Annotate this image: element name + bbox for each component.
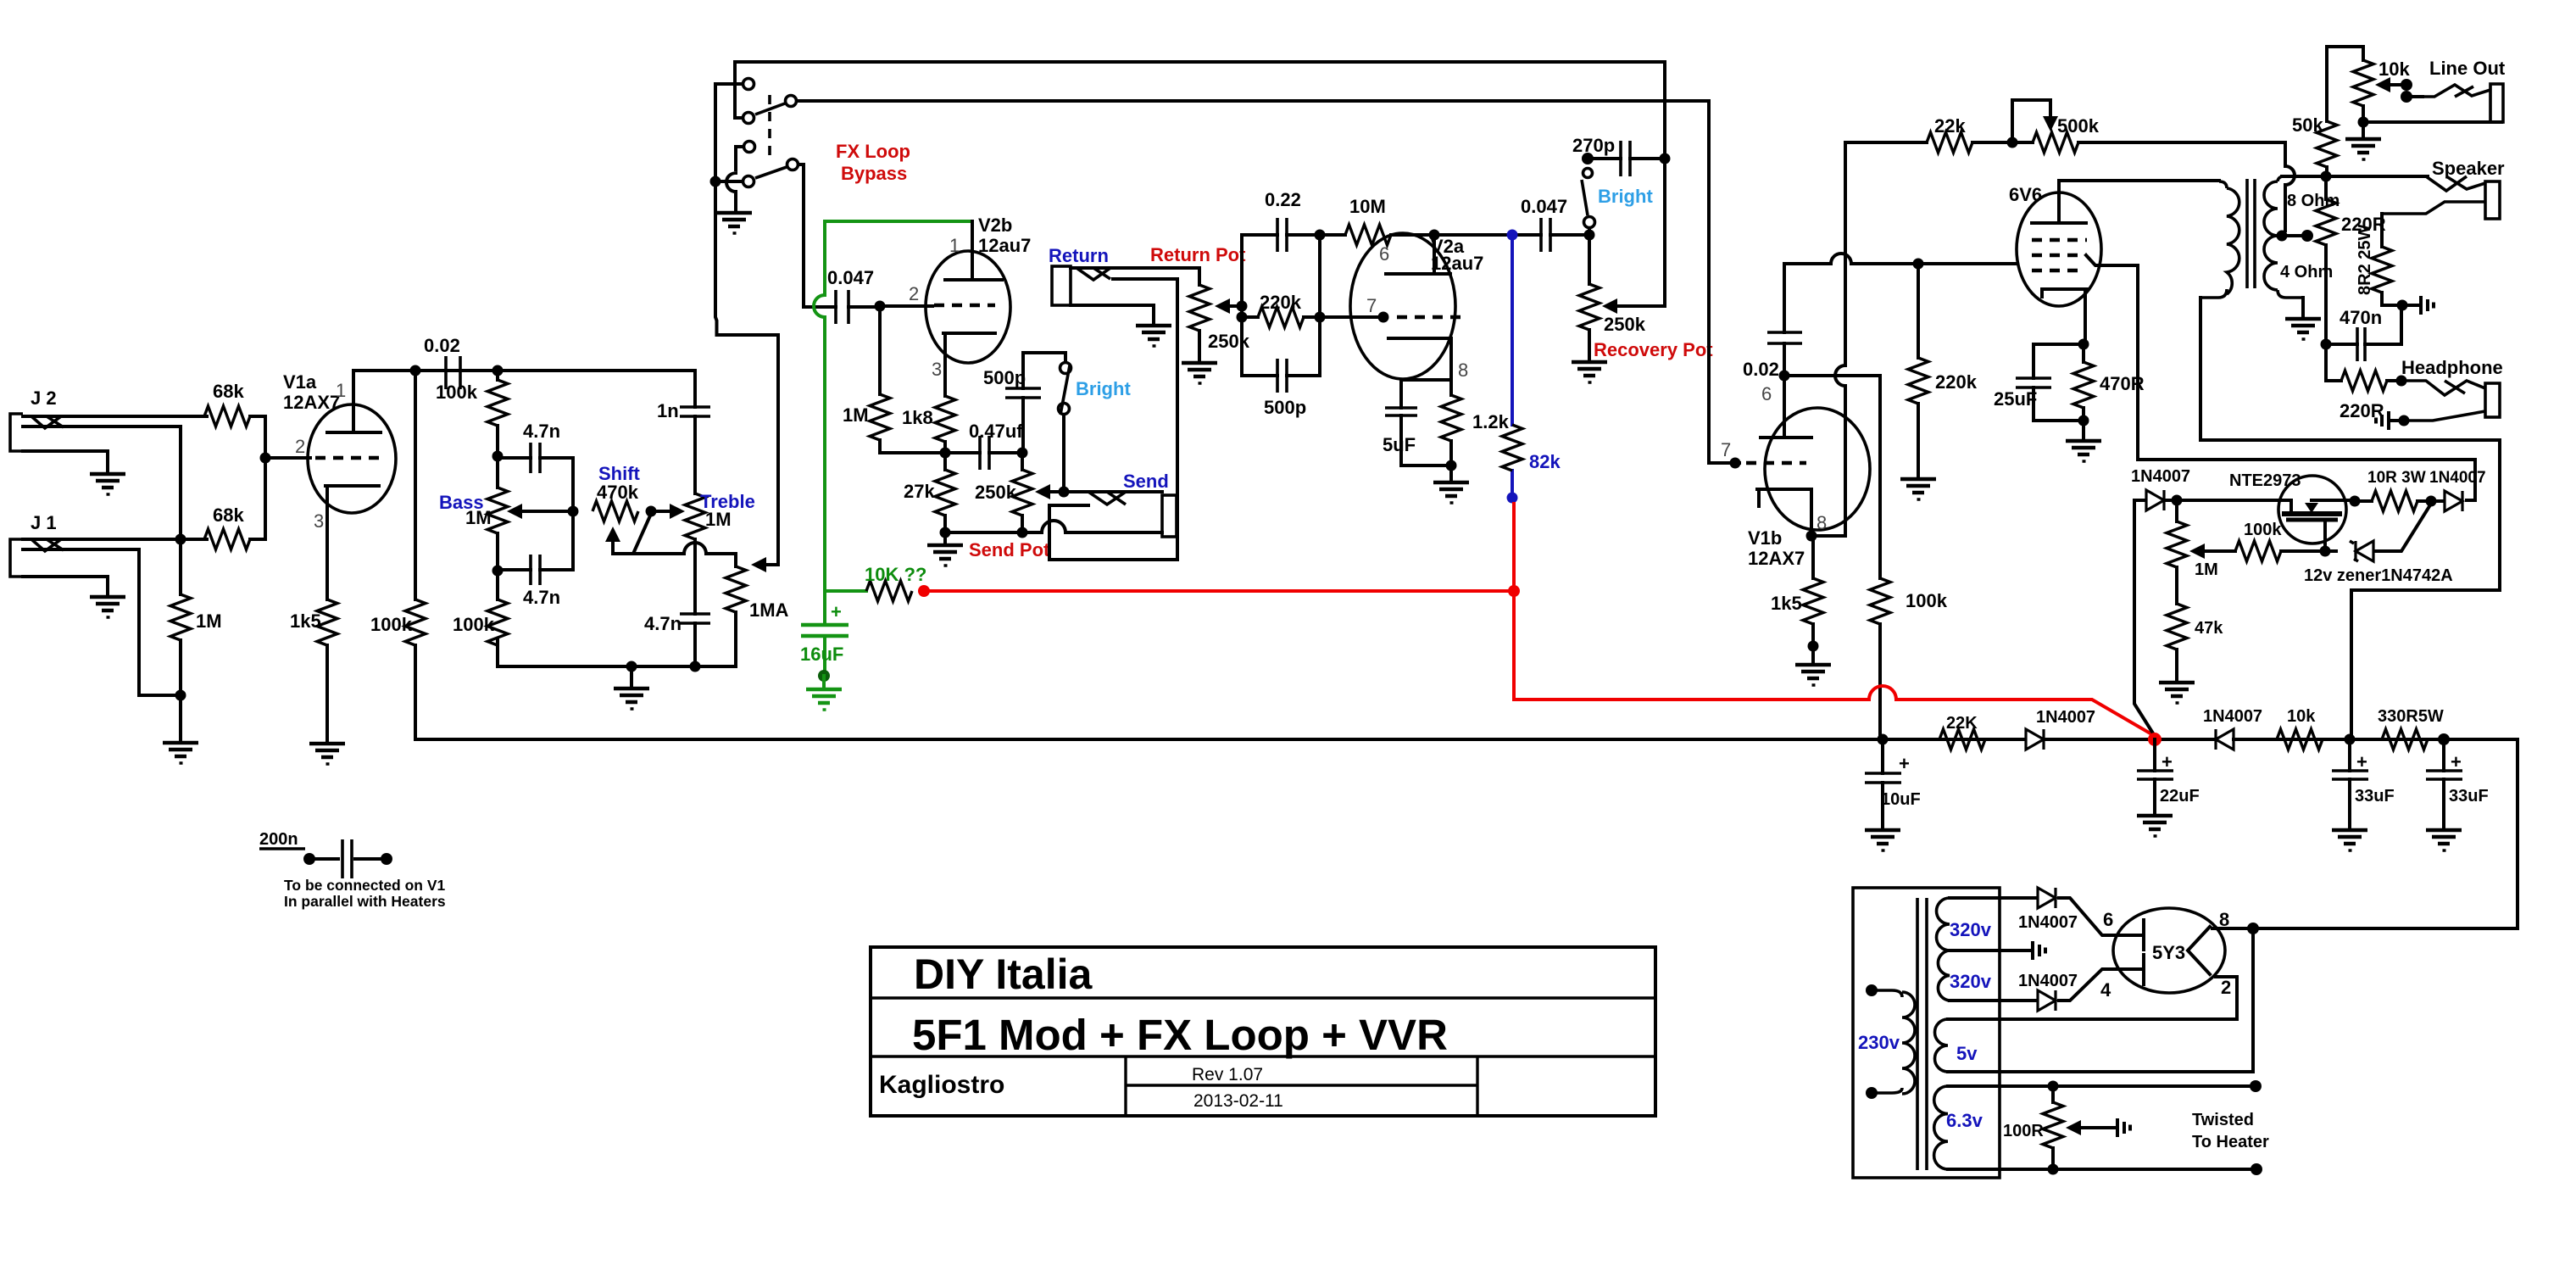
node: plate / 100k junction: [410, 365, 421, 376]
svg-text:7: 7: [1366, 295, 1377, 316]
svg-text:7: 7: [1721, 439, 1731, 460]
ground (6V6 cathode): [2066, 421, 2101, 461]
ground (return pot): [1182, 363, 1217, 383]
resistor 470R (6V6 cathode): [2073, 344, 2145, 421]
ground (VVR divider): [2159, 683, 2195, 703]
wire: tone stack bottom rail: [498, 640, 736, 666]
potentiometer Recovery 250k: [1579, 235, 1713, 360]
tube 5Y3 (rectifier): [2100, 908, 2231, 1001]
resistor 1.2k (V2a cathode): [1441, 380, 1510, 465]
svg-text:200n: 200n: [259, 830, 298, 849]
svg-text:1N4007: 1N4007: [2429, 469, 2486, 487]
resistor 50k (line out divider): [2292, 47, 2363, 176]
resistor 27k (V2b cathode lower): [904, 453, 955, 532]
svg-text:100k: 100k: [370, 614, 413, 635]
wire: FX input riser (switch throws to 1MA wiper): [715, 84, 778, 565]
node: headphone sleeve: [2399, 415, 2410, 426]
svg-text:0.047: 0.047: [1521, 196, 1567, 217]
resistor 82k (blue, V2a plate load): [1502, 235, 1561, 498]
capacitor 0.22: [1242, 189, 1320, 252]
ground (33uF 2): [2426, 830, 2462, 850]
ground (10uF): [1865, 830, 1900, 850]
resistor 68k (J1 grid stopper): [204, 504, 250, 549]
svg-text:10M: 10M: [1349, 196, 1386, 217]
svg-text:8R2 25W: 8R2 25W: [2356, 225, 2374, 295]
capacitor 25uF (6V6 cathode bypass): [1994, 344, 2084, 421]
switch FX bypass pole 2: [715, 142, 798, 212]
capacitor 1n (treble cap): [657, 371, 710, 493]
svg-text:J 1: J 1: [31, 512, 57, 533]
node: 16uF bottom (green): [818, 670, 830, 682]
svg-text:6: 6: [2103, 909, 2113, 930]
svg-text:NTE2973: NTE2973: [2229, 471, 2301, 490]
svg-text:Bypass: Bypass: [841, 163, 907, 184]
potentiometer 1M (VVR control): [2167, 500, 2218, 604]
svg-text:+: +: [831, 601, 842, 622]
diode 1N4007 (VVR input): [2131, 467, 2190, 736]
node: 0.02 out / tone stack top: [492, 365, 504, 376]
PT secondary 320v (upper): [1936, 898, 2038, 950]
resistor 1M (input grid leak): [170, 539, 222, 741]
node: 1M bottom / J1 ring: [175, 690, 186, 701]
svg-text:10R 3W: 10R 3W: [2367, 469, 2426, 487]
wire: 500k NFB tap to 8 ohm (hops speaker row): [2285, 142, 2295, 231]
svg-text:5Y3: 5Y3: [2152, 942, 2185, 963]
wire: treble bottom network to 1MA with hop over treble column: [633, 543, 736, 566]
capacitor 33uF (filter 2): [2426, 739, 2489, 828]
node: B+ filter node: [2345, 734, 2356, 745]
PT 6.3v winding: [1934, 1086, 2256, 1169]
potentiometer Bass 1M: [439, 456, 573, 571]
zener 12v 1N4742A (gate protection): [2304, 504, 2453, 585]
node: 8R2 bottom: [2397, 300, 2408, 311]
ground (V2a cathode): [1433, 465, 1469, 503]
wire: V1a plate row: [353, 369, 695, 372]
ground (FX switch): [716, 213, 752, 233]
svg-text:470k: 470k: [597, 482, 639, 503]
jack Line Out: [2375, 58, 2506, 122]
wire: NFB vertical to V1b cathode (hops plate row): [1817, 142, 1845, 536]
capacitor 200n (note, heater bypass): [259, 830, 446, 910]
svg-text:2013-02-11: 2013-02-11: [1193, 1091, 1283, 1111]
jack Speaker: [2382, 158, 2505, 219]
ground (22uF): [2137, 816, 2173, 836]
svg-text:1: 1: [336, 380, 346, 401]
resistor 100k (tone stack slope, top): [436, 371, 508, 456]
resistor 100k (tone stack, bottom): [453, 571, 508, 658]
svg-text:68k: 68k: [213, 504, 244, 526]
svg-text:270p: 270p: [1572, 135, 1615, 156]
arrow into treble (treble wiper): [651, 504, 685, 519]
node: 82k bottom (blue): [1507, 493, 1518, 504]
resistor 220R (speaker series): [2316, 176, 2386, 344]
switch FX bypass pole 1: [715, 62, 797, 124]
diode 1N4007 (rectifier isolation): [2203, 707, 2277, 750]
svg-text:Send Pot: Send Pot: [969, 539, 1050, 560]
wire: V2a grid row: [1320, 315, 1387, 319]
node: V1b plate junction: [1779, 371, 1790, 382]
svg-text:470n: 470n: [2340, 307, 2382, 328]
svg-text:12au7: 12au7: [1431, 253, 1483, 274]
resistor 330R 5W (filter dropper): [2378, 707, 2444, 750]
svg-text:+: +: [2356, 751, 2367, 772]
ground (tone stack): [614, 666, 649, 709]
svg-text:Rev 1.07: Rev 1.07: [1192, 1065, 1263, 1084]
svg-text:5uF: 5uF: [1383, 434, 1416, 455]
resistor 22K (supply dropper): [1883, 714, 2026, 750]
wire: line out sleeve row: [2363, 120, 2501, 124]
heater terminal dots: [2250, 1080, 2262, 1092]
ground (1M bottom): [163, 743, 198, 763]
wire: V2a output row to recovery cap: [1434, 233, 1589, 237]
svg-text:33uF: 33uF: [2355, 787, 2395, 806]
svg-text:22k: 22k: [1934, 115, 1966, 137]
capacitor 22uF (VVR reservoir): [2137, 739, 2200, 814]
svg-text:1k5: 1k5: [290, 610, 321, 632]
svg-text:V1b: V1b: [1748, 527, 1782, 549]
svg-text:250k: 250k: [975, 482, 1017, 503]
svg-text:68k: 68k: [213, 381, 244, 402]
node: 6V6 cathode junction: [2078, 339, 2089, 350]
svg-text:J 2: J 2: [31, 387, 57, 409]
svg-text:0.02: 0.02: [1743, 359, 1779, 380]
pin1 plate: [327, 371, 381, 432]
ground (send pot): [927, 532, 963, 566]
svg-text:Return Pot: Return Pot: [1150, 244, 1246, 265]
potentiometer 1MA: [726, 566, 789, 666]
FX Loop Bypass label: [836, 141, 910, 184]
svg-text:V2b: V2b: [978, 215, 1012, 236]
svg-text:6: 6: [1379, 243, 1389, 265]
svg-text:6.3v: 6.3v: [1946, 1110, 1983, 1131]
svg-text:+: +: [1899, 753, 1910, 774]
node: 22uF / VVR takeoff (red): [2148, 733, 2162, 746]
output transformer: [2200, 176, 2340, 440]
wire: OT primary B+ feed from filter node: [2200, 440, 2500, 739]
capacitor 4.7n (upper bass bypass): [498, 421, 573, 511]
tube 6V6 (output pentode): [2009, 181, 2101, 344]
node: 470R bottom: [2078, 415, 2089, 426]
resistor 47k (VVR divider): [2167, 604, 2223, 681]
wire: V1b plate row to 100k: [1784, 376, 1880, 578]
node: rectifier output node: [2438, 733, 2450, 745]
svg-text:12AX7: 12AX7: [283, 392, 340, 413]
input jack J2: [10, 387, 207, 472]
svg-text:DIY Italia: DIY Italia: [914, 950, 1093, 998]
node: right rail grid row: [1315, 312, 1326, 323]
capacitor 4.7n (treble shunt): [644, 613, 710, 666]
wire: 6V6 plate to OT primary: [2059, 179, 2219, 182]
svg-text:Kagliostro: Kagliostro: [879, 1071, 1004, 1099]
wire: 5Y3 pin 8 output: [2212, 927, 2518, 930]
resistor 8R2 25W (dummy load): [2356, 214, 2402, 305]
PT secondary 320v (lower): [1938, 950, 2038, 1001]
capacitor 16uF (green, V2b supply filter): [800, 591, 848, 671]
svg-text:1N4007: 1N4007: [2018, 913, 2078, 932]
node: 6V6 grid / 220k junction: [1913, 259, 1924, 270]
svg-text:47k: 47k: [2195, 619, 2223, 638]
svg-text:1M: 1M: [2195, 560, 2218, 579]
svg-text:1k5: 1k5: [1771, 593, 1802, 614]
svg-text:33uF: 33uF: [2449, 787, 2489, 806]
wire: rail to 5Y3 pin 8: [2516, 739, 2519, 928]
ground (return jack): [1136, 326, 1171, 346]
wire: recovery network left rail: [1240, 235, 1243, 376]
svg-text:3: 3: [314, 510, 324, 532]
node: 1k8/27k/0.47 junction: [940, 448, 951, 459]
tube V1b 12AX7: [1721, 376, 1870, 569]
ground (8R2, sideways): [2402, 296, 2434, 315]
resistor 1k5 (V1a cathode): [290, 599, 337, 742]
svg-text:8: 8: [1817, 512, 1827, 533]
svg-text:27k: 27k: [904, 481, 935, 502]
diode 1N4007 (HT rectifier 1): [2018, 888, 2144, 935]
resistor 220k (recovery series): [1242, 292, 1320, 327]
capacitor 0.047 (FX loop input): [827, 267, 932, 324]
PT primary 230v: [1858, 984, 1915, 1099]
green resistor 10K ?? (V2b B+ feed): [825, 564, 926, 601]
node: send pot bottom: [1017, 527, 1028, 538]
svg-text:25uF: 25uF: [1994, 388, 2037, 410]
svg-text:In parallel with Heaters: In parallel with Heaters: [284, 893, 446, 910]
svg-text:0.02: 0.02: [424, 335, 460, 356]
node: pole2 throw to FX riser: [710, 176, 721, 187]
svg-text:250k: 250k: [1604, 314, 1646, 335]
title block: [871, 947, 1655, 1116]
wire: send tip NC loop to return jack: [1049, 279, 1177, 560]
svg-text:10k: 10k: [2378, 59, 2410, 80]
node: right rail top: [1315, 230, 1326, 241]
capacitor 0.047 (recovery coupling): [1521, 196, 1567, 252]
ground (J2 sleeve): [90, 474, 125, 494]
svg-text:230v: 230v: [1858, 1032, 1900, 1053]
node: red B+ to green (red dot): [918, 585, 930, 597]
ground (V1b cathode): [1795, 646, 1831, 685]
PT center tap to ground: [1950, 941, 2045, 960]
svg-text:1.2k: 1.2k: [1472, 411, 1510, 432]
resistor 220k (6V6 grid leak): [1908, 264, 1978, 477]
svg-text:470R: 470R: [2100, 373, 2145, 394]
node: 270p right junction: [1660, 153, 1671, 164]
node: speaker node: [2321, 171, 2332, 182]
node: pin8 / 5v junction: [2247, 923, 2259, 934]
potentiometer Return 250k: [1150, 244, 1250, 361]
svg-text:1N4007: 1N4007: [2018, 972, 2078, 990]
wire: 6V6 screen to VVR diode: [2086, 255, 2475, 500]
node: 220R bottom / 470n left: [2321, 339, 2332, 350]
svg-text:4.7n: 4.7n: [523, 587, 560, 608]
arrow into send pot (wiper): [1035, 484, 1064, 499]
svg-text:2: 2: [295, 436, 305, 457]
svg-text:16uF: 16uF: [800, 644, 843, 665]
node: V2a cathode bottom: [1446, 460, 1457, 471]
svg-text:0.047: 0.047: [827, 267, 874, 288]
resistor 10R 3W (VVR source): [2350, 469, 2432, 511]
potentiometer 10k (line out level): [2353, 47, 2410, 122]
node: send wiper junction: [1059, 487, 1070, 498]
ground (1k5): [309, 744, 345, 764]
ground (humdinger, sideways): [2117, 1118, 2130, 1137]
PT 5v winding: [1935, 928, 2254, 1072]
capacitor 470n: [2326, 305, 2401, 361]
green wire: V2b plate B+ feed: [814, 221, 972, 591]
wire: 68k outputs join to V1a grid: [250, 416, 310, 539]
wire: bypass line 2: [797, 99, 1709, 103]
svg-text:250k: 250k: [1208, 331, 1250, 352]
ground (OT 4 ohm): [2285, 319, 2321, 339]
svg-text:Line Out: Line Out: [2429, 58, 2506, 79]
wire: line1 down to recovery wiper: [1615, 62, 1665, 306]
resistor 1M (V2b grid leak): [843, 306, 945, 453]
svg-text:320v: 320v: [1950, 919, 1992, 940]
svg-text:220k: 220k: [1260, 292, 1302, 313]
svg-text:22uF: 22uF: [2160, 787, 2200, 806]
resistor 100k (V1b plate load): [1870, 578, 1948, 739]
tube V1a 12AX7 (triode): [283, 371, 396, 599]
capacitor 4.7n (lower bass bypass): [498, 511, 573, 608]
svg-text:Return: Return: [1049, 245, 1109, 266]
arrow into return pot (wiper from recovery rail): [1215, 298, 1248, 314]
svg-text:10uF: 10uF: [1881, 790, 1921, 809]
MOSFET NTE2973 (VVR regulator): [2167, 471, 2350, 551]
potentiometer 100R (humdinger): [2003, 1081, 2114, 1175]
svg-text:Recovery Pot: Recovery Pot: [1594, 339, 1713, 360]
tube V2b 12au7: [909, 215, 1031, 396]
svg-text:100R: 100R: [2003, 1122, 2044, 1140]
red wire: VVR B+ distribution: [924, 504, 2155, 736]
resistor 1k5 (V1b cathode): [1771, 536, 1823, 646]
node: red junction at 82k: [1508, 585, 1520, 597]
svg-text:To Heater: To Heater: [2192, 1133, 2269, 1151]
node: V2a plate junction: [1429, 230, 1440, 241]
resistor 10M: [1320, 196, 1434, 245]
svg-text:+: +: [2451, 751, 2462, 772]
svg-text:100k: 100k: [1906, 590, 1948, 611]
svg-text:6: 6: [1761, 383, 1772, 404]
ground (recovery pot): [1572, 362, 1607, 382]
svg-text:Twisted: Twisted: [2192, 1111, 2254, 1129]
node: headphone tip: [2396, 376, 2407, 387]
svg-text:1N4007: 1N4007: [2131, 467, 2190, 486]
resistor 1k8 (V2b cathode upper): [902, 396, 955, 453]
jack Headphone: [2401, 357, 2503, 421]
arrow into recovery pot (wiper): [1602, 298, 1617, 314]
resistor 10k (screen feed): [2277, 707, 2350, 750]
Twisted To Heater note: [2192, 1111, 2269, 1151]
svg-text:100k: 100k: [436, 382, 478, 403]
potentiometer Send 250k: [975, 448, 1032, 533]
svg-text:6V6: 6V6: [2009, 184, 2042, 205]
svg-text:V1a: V1a: [283, 371, 317, 393]
svg-text:12AX7: 12AX7: [1748, 548, 1805, 569]
dashed mechanical link: [768, 95, 771, 159]
jack Return: [1049, 245, 1199, 324]
wire: pole2 common to 0.047: [798, 164, 836, 307]
wire: send pot bottom to jack sleeve with hump: [945, 521, 1162, 532]
resistor 68k (J2 grid stopper): [204, 381, 250, 426]
ground (headphone, sideways): [2376, 411, 2404, 430]
diode 1N4007 (VVR output to screen): [2429, 469, 2486, 511]
svg-text:220k: 220k: [1935, 371, 1978, 393]
switch Bright (FX send): [1059, 363, 1132, 415]
svg-text:10K ??: 10K ??: [865, 564, 926, 585]
wire: 6V6 grid row with hop over NFB: [1784, 254, 2017, 264]
node: 10k bottom / sleeve row: [2358, 117, 2369, 128]
ground (33uF 1): [2332, 830, 2367, 850]
svg-text:500p: 500p: [983, 367, 1026, 388]
ground (line out): [2345, 122, 2381, 159]
node: V1b grid terminal: [1730, 458, 1741, 469]
node: recovery pot top junction: [1584, 230, 1595, 241]
node: 1k5 bottom: [1808, 641, 1819, 652]
node: 82k blue junction: [1507, 230, 1518, 241]
svg-text:1M: 1M: [843, 404, 869, 426]
capacitor 10uF (first filter): [1865, 739, 1921, 828]
node: VVR drain node: [2172, 495, 2183, 506]
potentiometer Shift 470k: [593, 463, 651, 554]
capacitor 5uF (V2a cathode bypass): [1383, 380, 1451, 465]
node: V1a grid junction: [260, 453, 271, 464]
svg-text:4: 4: [2100, 979, 2111, 1001]
node: tone ground junction: [626, 661, 637, 672]
svg-text:12v zener1N4742A: 12v zener1N4742A: [2304, 566, 2453, 585]
tube V2a 12au7: [1350, 233, 1483, 381]
svg-text:500k: 500k: [2057, 115, 2100, 137]
svg-text:4.7n: 4.7n: [523, 421, 560, 442]
resistor 100k (V1a plate load): [370, 371, 426, 739]
diode 1N4007 (supply): [2026, 708, 2149, 750]
svg-text:3: 3: [932, 359, 942, 380]
wire: line2 down to V1b grid: [1709, 101, 1739, 463]
pin3 cathode: [325, 486, 379, 599]
svg-text:1n: 1n: [657, 400, 679, 421]
jack Send: [1064, 471, 1177, 537]
svg-text:1M: 1M: [705, 509, 732, 530]
node: treble bottom junction: [690, 661, 701, 672]
node: V2b grid junction: [875, 301, 886, 312]
svg-text:Bright: Bright: [1598, 186, 1653, 207]
long B+ rail (main supply row): [415, 738, 2518, 741]
svg-text:500p: 500p: [1264, 397, 1306, 418]
svg-text:10k: 10k: [2287, 707, 2316, 726]
node: VVR gate node: [2320, 546, 2331, 557]
node: shift/treble wiper junction: [646, 506, 657, 517]
svg-text:0.47uf: 0.47uf: [969, 421, 1023, 442]
svg-text:82k: 82k: [1529, 451, 1561, 472]
svg-text:330R5W: 330R5W: [2378, 707, 2444, 726]
ground (16uF, green): [806, 676, 842, 710]
wire: J2 ring to J1 tip: [179, 426, 182, 539]
node: 220k left junction: [1237, 312, 1248, 323]
node: 27k bottom / send pot bottom: [940, 527, 951, 538]
svg-text:22K: 22K: [1946, 714, 1978, 733]
node: slope/bass/4.7n junction: [492, 451, 504, 462]
svg-text:1M: 1M: [196, 610, 222, 632]
svg-text:Speaker: Speaker: [2432, 158, 2505, 179]
pin2 grid (dashed): [315, 456, 381, 460]
wire: recovery network right rail: [1318, 235, 1321, 376]
svg-text:1k8: 1k8: [902, 407, 933, 428]
node: bass lower junction: [492, 566, 504, 577]
svg-text:2: 2: [2221, 977, 2231, 998]
potentiometer Treble 1M: [685, 491, 755, 614]
node: 22k/500k junction: [2007, 137, 2018, 148]
node: V2a grid terminal: [1378, 312, 1389, 323]
svg-text:50k: 50k: [2292, 114, 2323, 136]
svg-text:100k: 100k: [453, 614, 495, 635]
svg-text:Send: Send: [1123, 471, 1169, 492]
svg-text:5v: 5v: [1956, 1043, 1978, 1064]
